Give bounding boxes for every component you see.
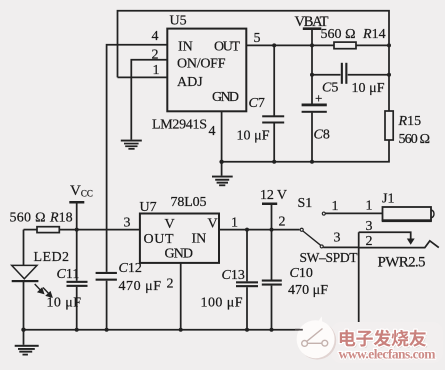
svg-text:IN: IN [178,40,193,55]
svg-text:2: 2 [366,234,373,249]
svg-text:OUT: OUT [214,40,240,55]
wire right rail to R15 [388,45,390,111]
wire rail stub fading into logo [295,329,303,331]
svg-text:U5: U5 [170,14,187,29]
svg-text:GND: GND [212,90,239,105]
wire J1 pin2 with spring chevron [359,241,439,248]
svg-text:3: 3 [124,215,131,230]
svg-text:R18: R18 [49,210,73,225]
wire J1 pin3 with arrow [359,232,411,239]
junction node U5 GND bus [219,160,223,164]
watermark CJK text "dian zi fa shao you" [340,330,428,348]
wire U5 pin2 ON/OFF to ground [131,60,167,140]
wire U5 pin1 ADJ [118,76,168,78]
wire Vcc horizontal to U7 pin3 [24,229,38,231]
ground symbol bottom left [15,345,39,356]
capacitor C11 [67,281,88,287]
svg-text:100 μF: 100 μF [201,295,243,310]
svg-text:560 Ω: 560 Ω [10,210,46,225]
wire C11 bottom [76,287,78,330]
capacitor C12 [96,272,117,281]
wire 12V stem [271,204,273,230]
connector J1 barrel jack [382,207,434,245]
power symbol VBAT bar [303,27,322,30]
svg-text:LM2941S: LM2941S [152,118,207,133]
switch S1 throw contact pin 3 [320,245,323,248]
capacitor C5 [341,63,348,84]
capacitor C7 [262,115,284,123]
wire U5 pin4 IN [107,45,168,272]
wire C11 branch [76,230,78,281]
svg-text:GND: GND [165,247,194,262]
svg-text:SW–SPDT: SW–SPDT [300,250,359,265]
svg-text:C11: C11 [57,267,80,282]
svg-text:4: 4 [209,124,216,139]
wire VBAT stem [311,29,313,46]
junction node VBAT/C7 on OUT wire [272,43,276,47]
wire U7 GND stem [180,263,182,330]
svg-text:2: 2 [167,276,174,291]
resistor R15 [385,111,393,140]
svg-text:12 V: 12 V [260,188,287,203]
wire U5 GND pin stem [221,111,223,175]
wire U7 pin1 to switch [219,229,300,231]
wire LED branch [23,230,25,266]
junction node C5 right [387,73,391,77]
wire C5 right [348,74,389,76]
watermark logo circle [297,317,337,360]
svg-text:J1: J1 [382,191,394,206]
svg-text:1: 1 [153,63,160,78]
wire U5 pin5 OUT to R14 [246,44,334,46]
svg-text:C5: C5 [322,81,338,96]
svg-text:2: 2 [279,214,286,229]
wire switch contact3 [323,246,359,248]
ground symbol below U5 GND pin [212,176,233,187]
junction node C12 bottom rail [105,328,109,332]
svg-text:www.elecfans.com: www.elecfans.com [339,347,437,362]
svg-text:5: 5 [254,31,261,46]
svg-text:C8: C8 [314,127,330,142]
switch S1 throw contact pin 1 [322,212,325,215]
svg-text:LED2: LED2 [34,250,70,265]
wire R14 right to rail [356,44,389,46]
wire R18 right to U7 [59,229,140,231]
junction node R14/ADJ feedback [387,43,391,47]
svg-text:1: 1 [332,199,339,214]
junction node VBAT/C8 stem [310,43,314,47]
svg-text:OUT: OUT [144,232,174,247]
junction node C13 bottom rail [245,328,249,332]
wire switch contact1 to J1 pin1 [325,212,382,214]
wire bottom rail [24,329,360,331]
op-amp U7 regulator box [140,214,219,263]
switch S1 common pole contact pin 2 [300,228,303,231]
junction node Vcc/C11 [75,228,79,232]
wire Vcc stem [76,202,78,229]
wire LED cathode down to ground [23,281,25,345]
svg-text:PWR2.5: PWR2.5 [378,255,426,271]
wire C7 stem [273,45,275,115]
svg-text:V: V [165,217,175,232]
svg-text:IN: IN [192,231,207,246]
svg-text:1: 1 [366,198,373,213]
wire C7 bottom [273,123,275,162]
junction node C13 top [245,228,249,232]
svg-text:470 μF: 470 μF [119,279,162,294]
wire J1 vertical to rail [358,232,360,330]
wire C10 bottom [271,286,273,330]
svg-text:U7: U7 [140,200,157,215]
junction node LED/ground rail [21,328,25,332]
svg-text:+: + [315,90,322,105]
svg-text:C12: C12 [119,261,142,276]
capacitor C8 polarized [302,104,327,113]
svg-text:C10: C10 [290,266,313,281]
svg-text:ADJ: ADJ [177,75,203,90]
capacitor C10 [262,280,282,286]
svg-text:10 μF: 10 μF [47,295,82,310]
power symbol Vcc bar [69,201,84,204]
wire C8 bottom to ground bus [311,113,313,162]
svg-text:4: 4 [152,29,159,44]
svg-text:3: 3 [366,219,373,234]
svg-text:560 Ω: 560 Ω [321,27,356,42]
wire C8 branch [311,45,313,103]
svg-text:C13: C13 [222,268,245,283]
junction node C11 bottom rail [75,328,79,332]
junction node 12V/C10 [270,228,274,232]
svg-text:C7: C7 [249,96,265,111]
svg-text:R14: R14 [362,27,386,42]
svg-text:78L05: 78L05 [171,195,207,210]
resistor R18 [37,227,59,233]
junction node C7 bottom [272,160,276,164]
watermark url text www.elecfans.com [339,347,438,363]
junction node C10 bottom rail [270,328,274,332]
junction node U7 GND rail [179,328,183,332]
svg-text:10 μF: 10 μF [237,129,270,144]
wire C12 bottom to rail [106,281,108,330]
junction node C5 left [310,73,314,77]
junction node C8 bottom [310,160,314,164]
svg-text:10 μF: 10 μF [352,81,385,96]
svg-text:V: V [208,217,218,232]
wire C5 left [312,74,341,76]
wire R15 bottom to ground bus [222,140,389,162]
power symbol 12V bar [262,203,277,206]
svg-text:R15: R15 [398,114,422,129]
svg-text:560 Ω: 560 Ω [399,132,431,147]
resistor R14 [334,42,356,49]
capacitor C13 [236,281,258,287]
svg-text:3: 3 [334,230,341,245]
wire top feedback line [118,11,390,78]
svg-text:2: 2 [152,48,159,63]
op-amp U5 regulator box [167,29,246,112]
watermark white backdrop [331,322,443,363]
svg-text:470 μF: 470 μF [288,283,328,298]
svg-text:S1: S1 [298,196,313,211]
svg-text:ON/OFF: ON/OFF [177,57,226,72]
wire switch blade [303,231,321,245]
wire C13 branch [246,230,248,282]
LED LED2 [12,265,52,297]
ground symbol below U5 pin2 [121,140,142,150]
wire C13 bottom [246,287,248,330]
wire C10 branch [271,230,273,280]
svg-text:1: 1 [231,216,238,231]
